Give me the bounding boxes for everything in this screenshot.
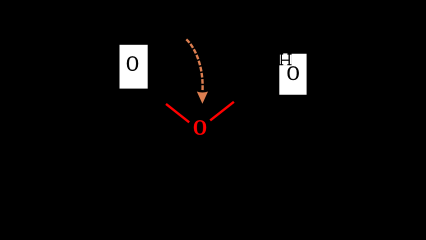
ester oxygen atom (red)	[194, 120, 206, 135]
arrowhead	[197, 92, 208, 104]
hydroxyl label box	[279, 54, 306, 95]
carbonyl O atom	[127, 56, 138, 70]
curved mechanism arrow (dashed)	[186, 39, 202, 91]
bond O-C right (red)	[210, 102, 234, 121]
carbonyl O label box	[120, 45, 148, 89]
hydroxyl O atom	[288, 66, 299, 80]
hydroxyl H halo	[280, 55, 292, 66]
hydroxyl H atom	[279, 54, 292, 66]
bond C-O left (red)	[166, 104, 189, 122]
